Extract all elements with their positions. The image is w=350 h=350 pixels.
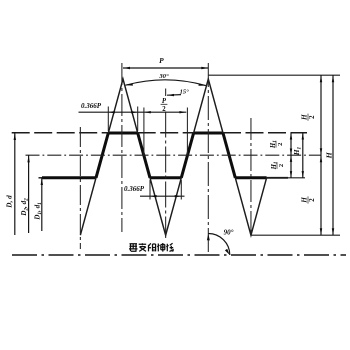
dimension D1,d1 vertical line with up arrow	[41, 178, 43, 231]
label H1/2 upper (rotated)	[270, 140, 284, 149]
label H/2 lower (rotated)	[301, 196, 317, 203]
node: left tooth center line	[121, 63, 123, 232]
dimension H/2 + H/2 at x=321	[320, 75, 322, 235]
char 3 de	[149, 243, 156, 251]
svg-text:0.366P: 0.366P	[124, 185, 145, 193]
extension line root flat right edge down	[180, 180, 182, 200]
wire: right tooth apex triangle thin flanks	[194, 79, 223, 133]
dimension 30 degree arc	[126, 80, 206, 86]
arrow P/2 right	[179, 111, 186, 113]
dimension H1 at x=302.8	[302, 133, 304, 178]
dimension 15 degree leader arrow	[167, 94, 181, 97]
dimension P/2 and 0.366P top shared dimension line	[79, 111, 187, 113]
char 4 zhou	[157, 243, 165, 252]
extension line crest right edge up	[137, 107, 139, 132]
extension line pitch flank right up	[186, 108, 188, 156]
svg-text:H: H	[301, 197, 309, 204]
node: right groove center line	[250, 118, 252, 236]
wire: left root flat thin lead-in	[39, 177, 43, 179]
wire: center groove V thin flanks	[150, 178, 181, 235]
svg-text:2: 2	[162, 106, 166, 113]
wire: thread profile thick outline (root flat left, flanks, crests)	[42, 133, 267, 178]
profile: right tooth left flank	[181, 133, 193, 178]
svg-text:H: H	[325, 151, 334, 159]
node: V-tip level extension line	[251, 234, 340, 236]
arrow 0.366P left	[108, 111, 115, 113]
dimension D2,d2 vertical line with up arrow	[28, 155, 30, 233]
node: center groove center line upper	[165, 89, 167, 97]
profile: right tooth right flank	[223, 133, 235, 178]
svg-text:30°: 30°	[158, 73, 169, 80]
dimension P: line and arrows	[123, 67, 208, 69]
node: pitch line (dash-dot)	[26, 154, 322, 156]
char 5 xian	[166, 243, 173, 251]
node: crest line (major diameter, dashed)	[12, 132, 307, 134]
wire: right groove V thin flanks	[235, 178, 266, 235]
char 1 luo	[129, 244, 138, 252]
svg-text:2: 2	[309, 115, 316, 119]
svg-text:H: H	[301, 114, 309, 121]
arrow P/2 left	[144, 111, 151, 113]
node: center groove center line lower	[165, 112, 167, 239]
dimension H1/2 pair at x=291	[290, 133, 292, 178]
svg-text:0.366P: 0.366P	[81, 102, 102, 110]
svg-text:2: 2	[309, 198, 316, 202]
profile: left tooth right flank	[138, 133, 150, 178]
dimension H at x=333	[332, 75, 334, 235]
node: root line right extension	[267, 177, 288, 179]
extension line root flat left edge down	[149, 180, 151, 200]
profile: right tooth crest flat	[194, 132, 223, 135]
arrow 0.366P right	[131, 111, 138, 113]
extension line crest left edge up	[107, 107, 109, 132]
node: thread axis line (dash-dot)	[12, 254, 346, 256]
svg-text:P: P	[159, 56, 164, 65]
profile: right root flat	[235, 176, 266, 179]
label fraction P/2	[161, 98, 168, 113]
profile: left tooth crest flat	[108, 132, 137, 135]
profile: left tooth left flank	[96, 133, 108, 178]
node: right tooth center line (extends to axis)	[207, 63, 209, 254]
dimension 90 degree arc at axis	[208, 234, 230, 256]
label H1/2 lower (rotated)	[271, 162, 285, 171]
node: apex level extension line	[208, 74, 340, 76]
label H/2 upper (rotated)	[301, 114, 317, 121]
wire: left groove V right flank extension	[80, 178, 96, 235]
node: left groove center line	[79, 127, 81, 249]
wire: left tooth apex triangle thin flanks	[108, 79, 137, 133]
dimension D,d vertical line with up arrow	[14, 133, 16, 235]
profile: center root flat	[150, 176, 181, 179]
profile: left root flat	[42, 176, 96, 179]
svg-text:90°: 90°	[224, 229, 234, 237]
svg-text:15°: 15°	[180, 89, 190, 96]
node: fundamental triangle thin extensions	[39, 79, 267, 235]
svg-text:D, d: D, d	[6, 195, 14, 209]
char 2 wen	[139, 243, 147, 251]
dimension 0.366P bottom (center root flat)	[140, 195, 185, 197]
label Chinese text: thread axis (faked glyph strokes)	[129, 243, 174, 252]
extension line pitch flank left up	[143, 108, 145, 156]
